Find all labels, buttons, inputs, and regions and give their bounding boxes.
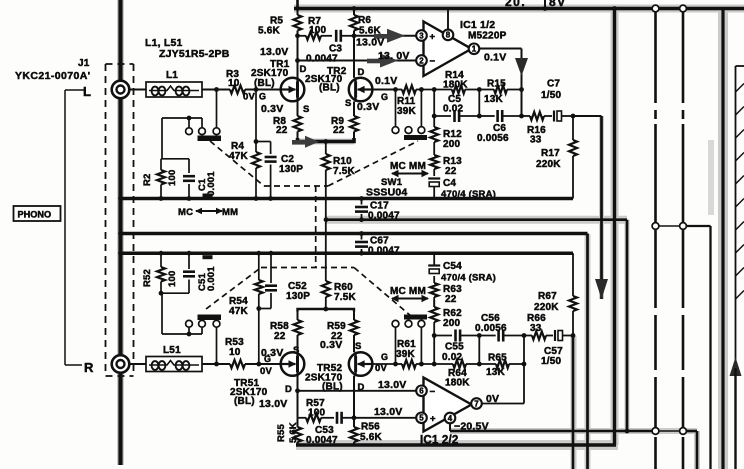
- wire to pin3 +: [354, 35, 417, 37]
- PHONO boxed label: [14, 206, 61, 221]
- capacitor C6: [477, 110, 522, 144]
- svg-text:D: D: [358, 67, 365, 78]
- svg-text:+: +: [430, 414, 436, 425]
- svg-text:5.6K: 5.6K: [258, 26, 281, 37]
- svg-text:S: S: [355, 341, 362, 352]
- svg-text:R2: R2: [142, 173, 153, 186]
- resistor R62: [430, 300, 462, 329]
- svg-text:0.001: 0.001: [206, 266, 217, 291]
- svg-text:1: 1: [472, 45, 477, 54]
- svg-text:S: S: [345, 98, 352, 109]
- svg-text:39K: 39K: [396, 349, 416, 360]
- svg-text:7: 7: [474, 399, 479, 408]
- label L1,L51: [145, 37, 230, 60]
- connector circles top: [652, 5, 686, 12]
- resistor R9: [331, 102, 358, 140]
- svg-text:G: G: [259, 92, 266, 102]
- svg-text:YKC21-0070A': YKC21-0070A': [15, 70, 91, 82]
- svg-text:33: 33: [530, 323, 542, 334]
- resistor R66: [524, 313, 553, 340]
- wire contact leads bottom: [188, 327, 190, 334]
- svg-text:100: 100: [167, 170, 178, 186]
- svg-text:5: 5: [419, 414, 424, 423]
- switch contact 1: [186, 128, 193, 135]
- svg-text:2: 2: [419, 56, 424, 65]
- harness wire A: [654, 12, 657, 223]
- wire L input: [129, 89, 146, 91]
- label TR51: [230, 378, 268, 407]
- bus ground 2: [118, 231, 587, 236]
- op-amp U1b pin7: [471, 398, 482, 409]
- bus ground 1: [118, 194, 573, 201]
- wire J1 shielded ground line: [118, 0, 122, 465]
- svg-text:180K: 180K: [445, 378, 470, 389]
- resistor R63: [430, 276, 462, 307]
- switch wiper bar bottom: [198, 315, 222, 320]
- wire to pin2 -: [298, 60, 417, 62]
- svg-text:1/50: 1/50: [541, 90, 562, 101]
- resistor R13: [430, 155, 462, 177]
- label 0.3V TR2: [345, 98, 379, 113]
- capacitor C52: [256, 253, 310, 311]
- svg-text:MM: MM: [222, 207, 238, 218]
- svg-text:(BL): (BL): [319, 83, 340, 94]
- resistor R53: [225, 337, 245, 368]
- resistor R12: [430, 127, 462, 155]
- resistor R67: [534, 291, 577, 335]
- resistor R59: [327, 309, 358, 352]
- svg-text:22: 22: [445, 294, 457, 305]
- svg-text:R17: R17: [541, 148, 560, 159]
- wire R14-C5 link: [477, 90, 482, 119]
- wire source rail thick: [298, 138, 355, 142]
- node C6 feedback: [519, 90, 524, 119]
- svg-text:22: 22: [333, 125, 345, 136]
- node gate R61 left: [393, 362, 398, 367]
- wire L1 to R3: [202, 87, 230, 92]
- resistor R10: [322, 139, 356, 220]
- svg-text:C4: C4: [443, 178, 456, 189]
- node R5/R7: [295, 33, 300, 38]
- wire output down line: [600, 116, 603, 299]
- resistor R61: [396, 339, 422, 368]
- svg-text:7.5K: 7.5K: [334, 292, 357, 303]
- svg-text:470/4 (SRA): 470/4 (SRA): [441, 273, 496, 284]
- switch contact 2: [199, 128, 206, 135]
- wire -20.5V rail right: [687, 431, 698, 469]
- svg-text:0.02: 0.02: [442, 352, 463, 363]
- transistor TR52: [349, 352, 388, 377]
- label MC-MM bottom left: [178, 207, 238, 218]
- label 20.8V: [505, 0, 567, 9]
- node R64/R65: [477, 362, 482, 367]
- harness tap right: [687, 226, 711, 469]
- capacitor C7: [541, 79, 573, 122]
- svg-text:20.: 20.: [505, 0, 526, 9]
- svg-text:5.6K: 5.6K: [360, 432, 383, 443]
- svg-text:J1: J1: [78, 58, 90, 69]
- shield hatched border: [736, 66, 744, 469]
- svg-text:(BL): (BL): [234, 396, 255, 407]
- wire MC network riser: [161, 118, 163, 159]
- bracket L-R: [65, 89, 84, 91]
- wire TR2 gate line: [372, 89, 395, 91]
- svg-text:130P: 130P: [286, 291, 310, 302]
- node TR51 drain pin6: [295, 388, 300, 393]
- svg-text:S: S: [303, 104, 310, 115]
- op-amp U1b triangle: [424, 378, 472, 432]
- op-amp U1b pin6: [416, 386, 435, 398]
- node R11 right: [419, 87, 424, 92]
- bus bottom 0V: [296, 7, 616, 445]
- wire to pin5 +: [354, 417, 417, 419]
- svg-text:0.02: 0.02: [443, 104, 464, 115]
- svg-text:0.0056: 0.0056: [475, 323, 507, 334]
- svg-text:22: 22: [274, 331, 286, 342]
- capacitor C54: [428, 253, 496, 283]
- dashed linkage bottom: [206, 268, 411, 317]
- wire to pin6 -: [298, 390, 417, 392]
- capacitor C5: [443, 94, 479, 122]
- label SW1: [366, 177, 407, 199]
- flow arrow output down: [515, 58, 528, 76]
- jack J1-L: [112, 81, 130, 99]
- resistor R54: [229, 253, 263, 364]
- op-amp U1a pin2: [416, 55, 435, 67]
- svg-text:8V: 8V: [549, 0, 567, 9]
- switch contact R61 a: [392, 320, 399, 327]
- op-amp U1a pin1: [469, 44, 480, 55]
- svg-text:13.0V: 13.0V: [259, 398, 287, 410]
- wire -20.5V rail: [450, 423, 656, 433]
- svg-text:PHONO: PHONO: [18, 210, 52, 220]
- wire 20.8V stub: [544, 0, 546, 9]
- svg-text:SSSU04: SSSU04: [366, 187, 407, 199]
- svg-text:M5220P: M5220P: [468, 31, 507, 42]
- harness wire A lower: [654, 230, 657, 428]
- svg-text:8: 8: [446, 31, 451, 40]
- switch contact 3R: [213, 320, 220, 327]
- capacitor C4: [428, 178, 496, 200]
- node R67 bottom: [571, 333, 576, 338]
- switch contact R11 c: [418, 127, 425, 134]
- svg-text:200: 200: [443, 139, 461, 150]
- svg-text:L: L: [83, 84, 91, 99]
- connector circles -20.5V: [652, 428, 686, 435]
- flow arrow pin2: [380, 54, 398, 68]
- svg-text:C7: C7: [547, 79, 560, 90]
- shield dashed box around jacks: [106, 64, 134, 376]
- svg-text:R67: R67: [538, 291, 557, 302]
- capacitor C53: [306, 412, 354, 446]
- wire L51 to R53: [202, 362, 230, 367]
- wire R62 chain: [432, 322, 437, 364]
- svg-text:R56: R56: [361, 422, 380, 433]
- label IC1 1/2: [460, 19, 507, 42]
- svg-text:130P: 130P: [279, 164, 303, 175]
- svg-text:180K: 180K: [443, 80, 468, 91]
- label MC-MM switch top: [390, 161, 429, 177]
- harness stubs below: [656, 437, 684, 469]
- resistor R8: [273, 102, 302, 140]
- svg-text:R15: R15: [487, 79, 506, 90]
- bus +20.8V top: [294, 6, 744, 11]
- resistor R14: [443, 70, 479, 94]
- wire pin7 feedback: [481, 403, 524, 405]
- svg-text:C55: C55: [445, 342, 464, 353]
- switch wiper bar R61: [404, 315, 427, 320]
- resistor R58: [270, 309, 302, 352]
- wire TR52 drain: [354, 376, 365, 418]
- capacitor C56: [475, 313, 524, 342]
- wire TR2 drain: [354, 36, 365, 78]
- node R57 C53: [352, 415, 357, 420]
- svg-text:+: +: [430, 32, 436, 43]
- resistor R57: [298, 398, 335, 422]
- switch contact 3: [213, 128, 220, 135]
- svg-text:C54: C54: [443, 261, 462, 272]
- wire bus2 extension down: [586, 234, 589, 469]
- wire TR51 drain: [285, 376, 298, 418]
- node R65 feedback: [522, 362, 527, 367]
- transistor TR51: [264, 352, 304, 377]
- resistor R52: [142, 253, 178, 293]
- node R15 feedback: [519, 87, 524, 92]
- wire contact riser bottom: [161, 293, 163, 334]
- svg-text:0.3V: 0.3V: [320, 339, 342, 351]
- node input sw bottom: [187, 332, 192, 337]
- op-amp U1b pin5: [416, 413, 436, 425]
- switch contact R61 c: [418, 320, 425, 327]
- svg-text:13K: 13K: [484, 94, 504, 105]
- svg-text:D: D: [285, 384, 292, 395]
- node R17 top: [571, 114, 602, 119]
- jack J1-R: [112, 355, 130, 373]
- svg-text:L51: L51: [163, 345, 181, 356]
- op-amp U1a triangle: [424, 22, 472, 77]
- capacitor C2: [254, 139, 304, 198]
- wire tail rail down: [626, 220, 629, 431]
- resistor R11: [396, 86, 422, 118]
- svg-text:6: 6: [419, 387, 424, 396]
- svg-text:0.1V: 0.1V: [484, 52, 506, 64]
- svg-text:0.1V: 0.1V: [375, 75, 397, 87]
- switch wiper bar R11: [404, 135, 427, 140]
- resistor R3: [226, 69, 245, 94]
- node C56 feedback: [522, 333, 527, 338]
- wire R11 switch leads: [395, 90, 397, 127]
- switch contact R11 a: [392, 127, 399, 134]
- svg-text:−: −: [430, 387, 436, 398]
- capacitor C17: [355, 196, 400, 222]
- wire TR52 gate line: [372, 363, 395, 365]
- resistor R64: [445, 360, 479, 389]
- op-amp U1b pin4: [445, 413, 456, 424]
- svg-text:13.0V: 13.0V: [378, 379, 406, 391]
- svg-text:1/50: 1/50: [541, 356, 562, 367]
- wire bus3 to R67: [572, 253, 574, 296]
- svg-text:220K: 220K: [534, 302, 559, 313]
- svg-text:G: G: [381, 92, 388, 102]
- switch contact 1R: [186, 320, 193, 327]
- wire pin8 supply: [447, 9, 449, 31]
- node R61 right: [419, 362, 424, 367]
- svg-text:33: 33: [530, 135, 542, 146]
- svg-text:13.0V: 13.0V: [260, 46, 288, 58]
- svg-text:MC MM: MC MM: [390, 286, 426, 297]
- capacitor C1: [183, 159, 217, 198]
- svg-text:10: 10: [228, 78, 240, 89]
- wire top supply stub: [296, 0, 299, 9]
- capacitor C55: [442, 330, 479, 364]
- label TR1: [251, 59, 290, 89]
- svg-text:ZJY51R5-2PB: ZJY51R5-2PB: [159, 48, 230, 60]
- svg-text:13. 0V: 13. 0V: [378, 50, 410, 62]
- svg-text:G: G: [381, 352, 388, 362]
- svg-text:39K: 39K: [397, 106, 417, 117]
- wire R12 chain top: [432, 90, 437, 128]
- wire contact leads top: [188, 118, 190, 128]
- switch contact R61 b: [405, 320, 412, 327]
- label MC-MM switch bottom: [390, 286, 429, 302]
- capacitor C51: [183, 253, 217, 293]
- inductor L1: [146, 70, 202, 97]
- svg-text:−: −: [430, 56, 436, 67]
- resistor R16: [522, 112, 553, 146]
- node R14/R15: [477, 87, 482, 92]
- connector circles mid: [652, 223, 686, 230]
- node R6/C3: [352, 33, 357, 38]
- wire pin1 output: [479, 48, 522, 50]
- svg-text:5.6K: 5.6K: [288, 422, 299, 443]
- svg-text:0V: 0V: [243, 92, 255, 103]
- resistor R55: [276, 418, 302, 445]
- inductor L51: [146, 357, 202, 372]
- svg-text:100: 100: [309, 25, 327, 36]
- wire R67 line down: [572, 336, 575, 469]
- svg-text:MC: MC: [178, 207, 193, 218]
- capacitor C57: [541, 330, 573, 367]
- wire R input: [129, 363, 146, 365]
- svg-text:4: 4: [448, 414, 453, 423]
- svg-text:13.0V: 13.0V: [356, 37, 384, 49]
- svg-text:0V: 0V: [260, 366, 272, 377]
- svg-text:0.0056: 0.0056: [477, 133, 509, 144]
- wire C5 line: [434, 115, 451, 117]
- svg-text:MC MM: MC MM: [390, 161, 426, 172]
- label TR52: [305, 363, 343, 393]
- wire TR1 drain: [298, 36, 307, 78]
- op-amp U1a pin8: [443, 30, 454, 41]
- dashed linkage vertical: [315, 186, 317, 268]
- svg-text:0.3V: 0.3V: [357, 101, 379, 113]
- label 0.3V TR1: [261, 103, 310, 115]
- svg-text:0.3V: 0.3V: [261, 103, 283, 115]
- wire tail rail: [324, 217, 627, 222]
- bus ground 3: [118, 251, 573, 259]
- resistor R7: [298, 16, 333, 40]
- resistor R56: [350, 418, 383, 445]
- resistor R65: [479, 353, 524, 379]
- wire source rail bottom: [298, 307, 355, 312]
- svg-text:100: 100: [167, 271, 178, 287]
- svg-text:47K: 47K: [229, 151, 249, 162]
- svg-text:13.0V: 13.0V: [374, 406, 402, 418]
- svg-text:10: 10: [229, 347, 241, 358]
- flow arrow source rail: [305, 136, 319, 148]
- svg-text:22: 22: [445, 166, 457, 177]
- svg-text:200: 200: [443, 318, 461, 329]
- svg-text:R6: R6: [358, 15, 371, 26]
- resistor R17: [536, 116, 577, 199]
- svg-text:G: G: [264, 354, 271, 364]
- switch contact R11 b: [405, 127, 412, 134]
- harness wire B: [682, 12, 685, 223]
- dashed linkage top: [210, 141, 418, 186]
- svg-text:R55: R55: [276, 423, 287, 442]
- svg-text:R65: R65: [488, 353, 507, 364]
- svg-text:0.001: 0.001: [206, 171, 217, 196]
- op-amp U1a pin3: [416, 30, 435, 42]
- switch contact 2R: [199, 320, 206, 327]
- wire R53 to TR51 gate: [245, 362, 281, 367]
- svg-text:220K: 220K: [536, 159, 561, 170]
- label 0.3V TR51: [261, 345, 300, 359]
- node input sw top: [187, 116, 192, 121]
- svg-text:7.5K: 7.5K: [333, 166, 356, 177]
- flow arrow pin3: [387, 29, 405, 43]
- wire R64-C55 link: [477, 333, 482, 364]
- svg-text:(BL): (BL): [254, 78, 275, 89]
- svg-text:13K: 13K: [486, 367, 506, 378]
- resistor R4: [229, 90, 260, 199]
- resistor R5: [258, 9, 302, 37]
- label TR2: [305, 66, 347, 94]
- wire R3 to TR1 gate: [245, 87, 281, 92]
- wire R61 switch leads: [395, 327, 397, 364]
- svg-text:R52: R52: [142, 269, 153, 287]
- svg-text:0.0047: 0.0047: [306, 54, 338, 65]
- wire gate to R64: [421, 362, 453, 367]
- transistor TR1: [259, 77, 304, 102]
- svg-text:22: 22: [276, 125, 288, 136]
- flow arrow down right: [595, 279, 608, 299]
- harness wire B lower: [682, 230, 685, 428]
- wire right thick vertical: [721, 9, 724, 469]
- wire R2-C1 node: [161, 158, 189, 160]
- svg-text:100: 100: [308, 408, 326, 419]
- transistor TR2: [349, 77, 388, 102]
- svg-text:3: 3: [419, 31, 424, 40]
- wire gate line to R14: [421, 87, 452, 92]
- resistor R6: [350, 9, 382, 37]
- svg-text:IC1 1/2: IC1 1/2: [460, 19, 495, 31]
- wire R52-C51 node: [159, 291, 189, 296]
- switch wiper bar top: [198, 136, 222, 141]
- resistor R15: [479, 79, 521, 106]
- svg-text:47K: 47K: [229, 306, 249, 317]
- svg-text:L1: L1: [166, 70, 178, 81]
- capacitor C3: [306, 30, 354, 65]
- flow arrow up right edge: [730, 357, 742, 469]
- node gate R11 left: [393, 87, 398, 92]
- wire C55 line: [434, 335, 452, 337]
- capacitor C67: [355, 231, 400, 256]
- resistor R60: [322, 220, 357, 309]
- node TR1 drain to pin2: [295, 58, 300, 63]
- svg-text:R: R: [84, 360, 94, 375]
- resistor R2: [142, 159, 178, 198]
